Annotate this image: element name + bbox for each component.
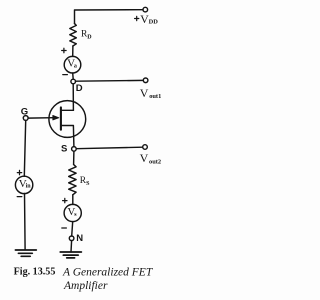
source Vs circle <box>64 204 81 221</box>
minus sign of VA <box>63 74 68 76</box>
terminal +VDD open circle <box>143 7 148 12</box>
label Vs <box>67 206 77 218</box>
label D <box>76 83 83 94</box>
caption Fig. 13.55 <box>14 266 56 277</box>
label +VDD <box>135 12 159 26</box>
svg-text:S: S <box>86 181 90 187</box>
wire node D down to FET drain <box>72 84 74 111</box>
ground left <box>15 250 36 256</box>
resistor RD zigzag <box>70 24 77 47</box>
svg-text:s: s <box>74 212 77 218</box>
wire RS to source Vs <box>72 195 74 205</box>
svg-text:A Generalized FET: A Generalized FET <box>62 266 154 278</box>
svg-text:a: a <box>74 63 77 69</box>
node N open circle <box>69 236 74 241</box>
label S <box>61 143 67 154</box>
svg-text:V: V <box>140 151 149 165</box>
svg-text:D: D <box>76 83 83 94</box>
wire VA to node D <box>72 73 75 79</box>
svg-text:N: N <box>76 233 83 244</box>
svg-text:DD: DD <box>149 19 159 26</box>
wire Vs to node N <box>72 222 73 236</box>
wire node N to right ground <box>70 241 73 252</box>
source VA circle <box>64 56 81 73</box>
label RS <box>80 176 90 187</box>
svg-text:out2: out2 <box>149 158 161 165</box>
minus sign of Vs <box>62 227 67 229</box>
plus sign of Vin <box>17 170 21 174</box>
FET channel bar <box>60 107 62 129</box>
plus sign of VA <box>62 48 66 52</box>
node S open circle <box>72 147 77 152</box>
wire Vin to left ground <box>24 194 27 250</box>
resistor RS zigzag <box>69 165 76 195</box>
label VA <box>67 58 77 70</box>
svg-text:Amplifier: Amplifier <box>63 280 108 292</box>
wire node D to Vout1 terminal <box>76 79 144 82</box>
FET source stub <box>62 126 74 147</box>
svg-text:in: in <box>26 184 32 190</box>
svg-text:S: S <box>61 143 67 154</box>
caption line 2 <box>63 280 108 292</box>
label G <box>21 106 28 117</box>
svg-text:out1: out1 <box>149 93 161 100</box>
svg-text:V: V <box>140 86 149 100</box>
label Vin <box>19 178 31 190</box>
terminal Vout2 open circle <box>143 145 148 150</box>
node D open circle <box>71 79 76 84</box>
label Vout2 <box>140 151 161 165</box>
label N <box>76 233 83 244</box>
source Vin circle <box>15 176 32 193</box>
minus sign of Vin <box>17 196 22 198</box>
label Vout1 <box>140 86 161 100</box>
wire top rail from drain branch to +VDD terminal <box>75 10 143 24</box>
plus sign of Vs <box>63 198 67 202</box>
ground right <box>60 252 81 258</box>
wire node G down to Vin <box>24 121 25 177</box>
wire node S to Vout2 terminal <box>76 147 142 149</box>
node G open circle <box>23 116 28 121</box>
svg-text:G: G <box>21 106 28 117</box>
label RD <box>81 30 92 41</box>
FET gate lead with arrow <box>28 115 59 120</box>
terminal Vout1 open circle <box>143 78 148 83</box>
wire RD to source VA <box>72 46 74 56</box>
svg-text:Fig. 13.55: Fig. 13.55 <box>14 266 56 277</box>
transistor Q1 FET envelope circle <box>49 101 86 138</box>
caption line 1 <box>62 266 154 278</box>
wire node S down to RS <box>73 151 75 164</box>
FET drain stub <box>62 109 74 111</box>
svg-text:D: D <box>87 34 92 40</box>
